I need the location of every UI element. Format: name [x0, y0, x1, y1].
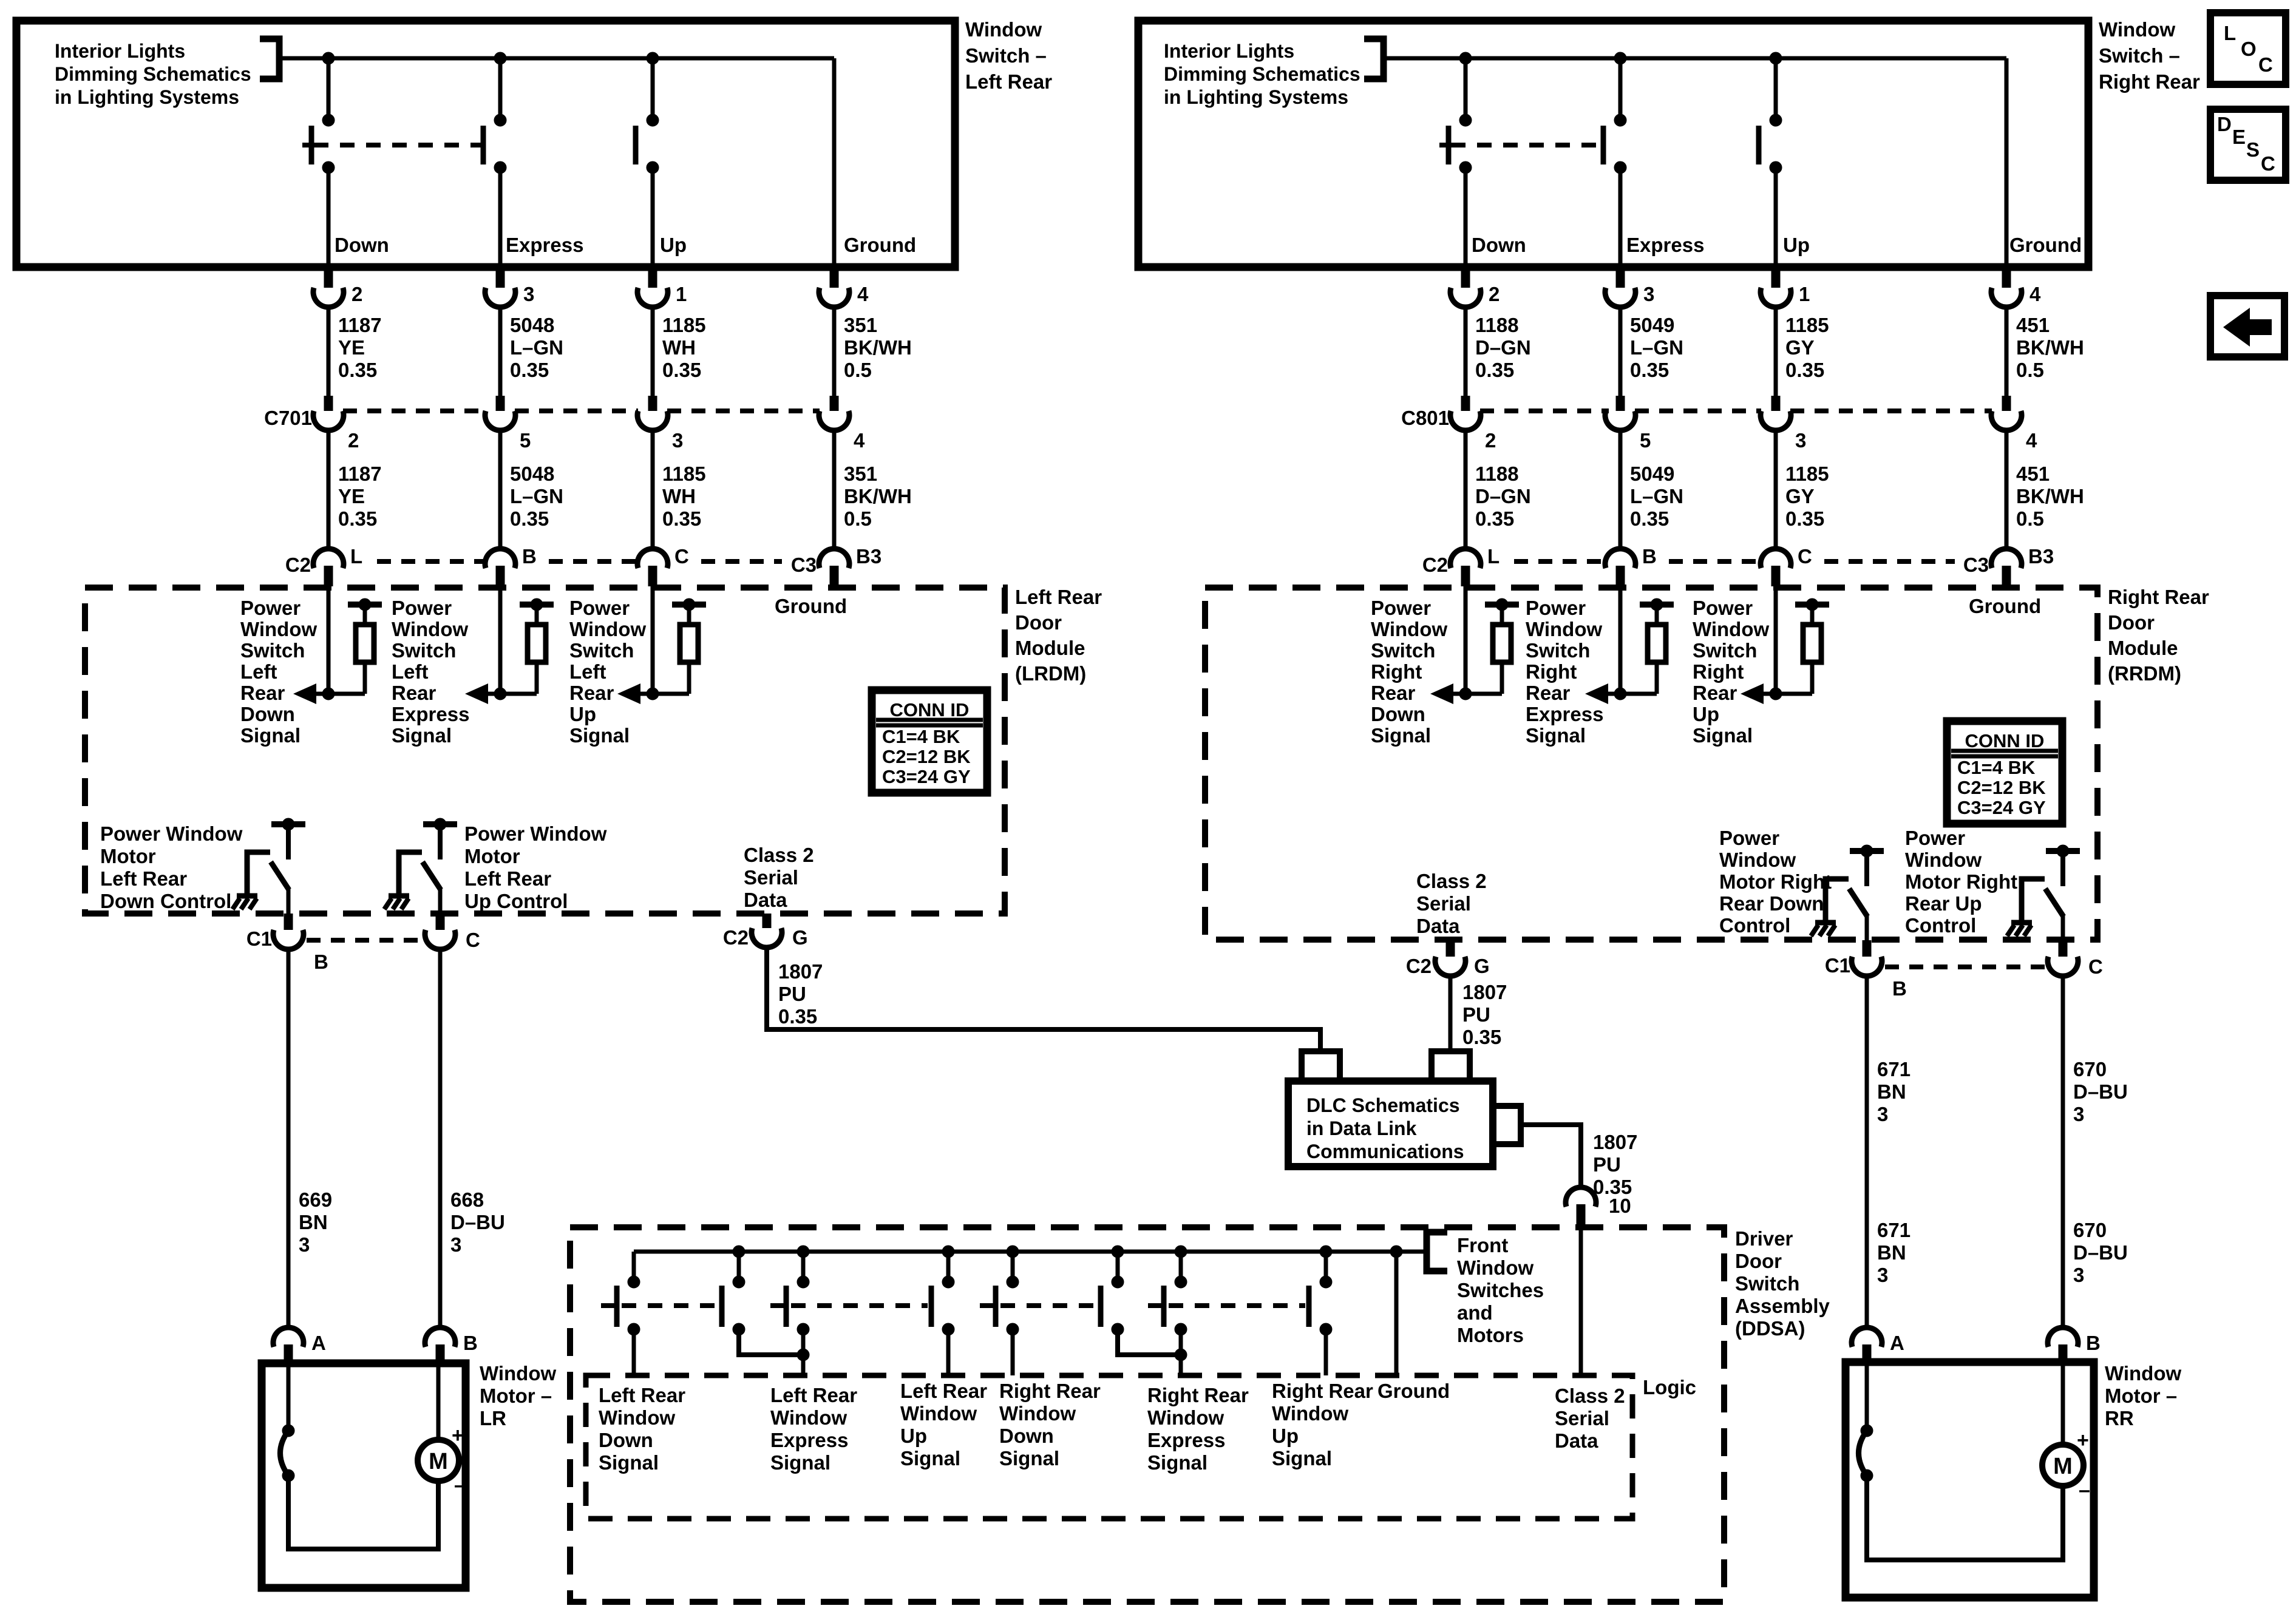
wire: RR Express signal drop (DDSA): [1179, 1329, 1183, 1375]
svg-text:Signal: Signal: [770, 1451, 830, 1474]
switch S-Express-LR top contact: [494, 114, 506, 126]
svg-text:O: O: [2241, 38, 2257, 60]
svg-text:Module: Module: [1015, 637, 1085, 659]
svg-text:451: 451: [2016, 314, 2050, 336]
svg-text:Ground: Ground: [1969, 595, 2041, 617]
connector C801 cavity 2: [1461, 396, 1470, 411]
svg-text:Right Rear: Right Rear: [2099, 70, 2200, 93]
svg-text:1807: 1807: [778, 960, 823, 983]
svg-text:PU: PU: [778, 983, 806, 1005]
wire: circuit 1187|YE|0.35 upper segment (left): [327, 307, 331, 396]
node: rail junction Up (left box): [647, 52, 659, 64]
svg-text:0.35: 0.35: [1630, 507, 1669, 530]
front switch Right Rear Window Down: contacts: [942, 1276, 954, 1288]
svg-text:Window: Window: [1905, 849, 1982, 871]
svg-text:BN: BN: [299, 1211, 328, 1233]
logic block dashed outline (DDSA): [586, 1375, 1632, 1519]
svg-text:C801: C801: [1401, 407, 1449, 429]
CONN ID table (LRDM): [872, 690, 987, 793]
connector C801 cavity 3: [1771, 396, 1781, 411]
svg-text:BK/WH: BK/WH: [844, 336, 912, 359]
wire: supply rail from bracket, right switch box: [1384, 56, 2006, 61]
svg-text:BK/WH: BK/WH: [844, 485, 912, 507]
svg-text:+: +: [452, 1424, 464, 1447]
wire: RR Up signal drop (DDSA): [1324, 1329, 1328, 1375]
wire: Express switch feed (right box): [1618, 58, 1623, 121]
switch assembly box: Window Switch - Right Rear: [1138, 21, 2088, 267]
svg-text:4: 4: [2026, 429, 2037, 452]
svg-text:1185: 1185: [1785, 463, 1829, 485]
svg-text:0.35: 0.35: [510, 359, 549, 381]
arrow into logic for Up signal: [617, 683, 640, 704]
internal pull-up resistor for Up signal: [1795, 602, 1829, 608]
svg-text:Front: Front: [1457, 1234, 1508, 1256]
wire: Express switch output (left box): [498, 168, 503, 267]
wire: circuit 351|BK upper segment (left): [832, 307, 837, 396]
svg-text:1: 1: [676, 283, 687, 305]
svg-text:3: 3: [450, 1233, 461, 1256]
driver switch arm to ground: [2022, 879, 2045, 923]
internal supply T-bar: [423, 821, 457, 827]
svg-text:5: 5: [1640, 429, 1651, 452]
svg-text:3: 3: [2073, 1103, 2084, 1125]
svg-text:351: 351: [844, 314, 877, 336]
wire: control output: [438, 889, 443, 914]
wire: circuit 5049|L&#8211;GN|0.35 lower segment (right): [1618, 430, 1623, 549]
connector cavity 10 into DDSA: [1566, 1187, 1596, 1207]
front switch Right Rear Window Express pre: movable bar: [993, 1286, 999, 1327]
svg-text:LR: LR: [480, 1407, 506, 1429]
svg-text:0.35: 0.35: [1785, 507, 1824, 530]
svg-text:B: B: [522, 545, 537, 568]
wire: circuit 1188|D&#8211;GN|0.35 upper segment (right): [1464, 307, 1468, 396]
wire: class 2 serial data drop (DDSA): [1579, 1227, 1583, 1375]
svg-text:A: A: [1890, 1332, 1904, 1354]
wire: circuit 1807 PU 0.35 from RRDM: [1449, 975, 1453, 1051]
wire: motor RR internal loop: [1867, 1476, 2063, 1560]
svg-text:GY: GY: [1785, 485, 1815, 507]
svg-text:Right: Right: [1526, 660, 1577, 683]
DESC reference box: [2210, 109, 2286, 180]
svg-text:Power: Power: [1526, 597, 1586, 619]
svg-text:D–BU: D–BU: [450, 1211, 505, 1233]
svg-text:Left Rear: Left Rear: [1015, 586, 1102, 608]
arrow into logic for Down signal: [1430, 683, 1453, 704]
front switch Right Rear Window Up feed: contacts: [1175, 1276, 1187, 1288]
connector C701 dashed gang line: [343, 408, 486, 413]
svg-text:C2=12 BK: C2=12 BK: [1957, 777, 2046, 798]
svg-text:670: 670: [2073, 1219, 2107, 1241]
svg-text:Class 2: Class 2: [1555, 1385, 1625, 1407]
front switch Right Rear Window Express pre: contacts: [1007, 1276, 1019, 1288]
svg-text:5: 5: [520, 429, 531, 452]
svg-text:GY: GY: [1785, 336, 1815, 359]
internal supply T-bar: [2046, 848, 2080, 854]
front switch Left Rear Window Express: contacts: [733, 1276, 745, 1288]
svg-text:1188: 1188: [1475, 463, 1519, 485]
svg-text:D: D: [2217, 113, 2232, 135]
svg-text:Door: Door: [2108, 611, 2155, 634]
svg-text:3: 3: [1877, 1264, 1888, 1286]
svg-text:0.35: 0.35: [1462, 1026, 1501, 1048]
connector C1 terminal B (RRDM): [1863, 940, 1872, 957]
connector pin 2 of Window Switch Right Rear: [1461, 267, 1470, 288]
switch S-Up-RR top contact: [1770, 114, 1782, 126]
svg-text:Down: Down: [335, 234, 389, 256]
svg-text:Data: Data: [1416, 915, 1460, 937]
svg-text:+: +: [2077, 1429, 2089, 1452]
wire: Up switch feed (left box): [651, 58, 655, 121]
module box: Right Rear Door Module (RRDM) dashed outline: [1205, 588, 2097, 940]
svg-text:Rear: Rear: [240, 682, 285, 704]
arrow into logic for Down signal: [293, 683, 316, 704]
motor M (LR): [418, 1440, 459, 1481]
svg-text:Interior Lights: Interior Lights: [55, 40, 185, 62]
svg-text:YE: YE: [338, 485, 365, 507]
svg-text:and: and: [1457, 1301, 1493, 1324]
svg-text:Window: Window: [240, 618, 317, 640]
svg-text:0.35: 0.35: [510, 507, 549, 530]
svg-text:Switch: Switch: [1735, 1272, 1799, 1295]
svg-text:C1: C1: [246, 927, 272, 950]
wire: motor LR brush feed B: [436, 1363, 441, 1440]
switch S-Express-RR movable bar: [1601, 126, 1606, 164]
wire: front switch common bus (DDSA): [634, 1250, 1427, 1254]
connector C701 cavity 2: [324, 396, 333, 411]
svg-text:0.35: 0.35: [1785, 359, 1824, 381]
svg-text:S: S: [2246, 138, 2260, 161]
svg-text:0.5: 0.5: [844, 507, 872, 530]
svg-text:Left: Left: [569, 660, 606, 683]
svg-text:Left Rear: Left Rear: [100, 867, 187, 890]
svg-text:1187: 1187: [338, 463, 382, 485]
DLC box exit notch right side: [1493, 1106, 1521, 1144]
svg-text:D–BU: D–BU: [2073, 1241, 2128, 1264]
svg-text:Signal: Signal: [1272, 1447, 1332, 1470]
svg-text:Down: Down: [240, 703, 295, 725]
wire: circuit 669 BN 3: [287, 949, 291, 1329]
svg-text:Up: Up: [900, 1425, 927, 1447]
front switch Left Rear Window Down: contacts: [628, 1276, 640, 1288]
driver switch arm to ground: [1826, 879, 1849, 923]
connector terminal B of Window Motor LR: [425, 1327, 455, 1347]
wire: control output: [2061, 915, 2065, 940]
svg-text:Interior Lights: Interior Lights: [1164, 40, 1294, 62]
svg-text:0.35: 0.35: [778, 1005, 817, 1028]
svg-text:Power: Power: [569, 597, 630, 619]
svg-text:Power Window: Power Window: [464, 822, 607, 845]
mechanical link stub (front switches): [980, 1303, 996, 1308]
ground symbol: [2011, 920, 2032, 926]
wire: circuit 5049|L&#8211;GN|0.35 upper segment (right): [1618, 307, 1623, 396]
svg-text:Door: Door: [1015, 611, 1062, 634]
node: rail junction Down (right box): [1459, 52, 1472, 64]
connector pin 3 of Window Switch Right Rear: [1616, 267, 1625, 288]
mechanical link stub on Down bar (left box): [302, 143, 319, 147]
connector pin 3 of Window Switch Left Rear: [496, 267, 505, 288]
svg-text:Left Rear: Left Rear: [900, 1380, 987, 1402]
switch S-Up-LR top contact: [647, 114, 659, 126]
svg-text:WH: WH: [662, 336, 696, 359]
switch S-Down-LR bottom contact: [322, 161, 335, 174]
svg-text:Switch –: Switch –: [2099, 44, 2180, 67]
svg-text:670: 670: [2073, 1058, 2107, 1080]
svg-text:Switch –: Switch –: [965, 44, 1047, 67]
connector C1 terminal C (LRDM): [436, 914, 445, 930]
svg-text:Power: Power: [1905, 827, 1965, 849]
svg-text:C2: C2: [1422, 554, 1448, 576]
svg-text:D–BU: D–BU: [2073, 1080, 2128, 1103]
svg-text:Ground: Ground: [775, 595, 847, 617]
svg-text:5049: 5049: [1630, 463, 1674, 485]
svg-text:G: G: [1474, 955, 1490, 977]
switch assembly box: Window Switch - Left Rear: [16, 21, 955, 267]
front switch Right Rear Window Express: contacts: [1112, 1276, 1124, 1288]
svg-text:Up: Up: [1693, 703, 1719, 725]
connector pin 4 of Window Switch Left Rear: [830, 267, 839, 288]
wire: Down switch feed (left box): [327, 58, 331, 121]
svg-text:E: E: [2232, 126, 2246, 148]
svg-text:Down: Down: [999, 1425, 1054, 1447]
connector terminal B3 into LRDM: [832, 549, 837, 551]
svg-text:Serial: Serial: [1555, 1407, 1609, 1429]
wire: Express switch output (right box): [1618, 168, 1623, 267]
svg-text:C: C: [674, 545, 689, 568]
connector terminal B3 into RRDM: [2005, 549, 2009, 551]
switch S-Down-LR movable bar: [309, 126, 314, 164]
svg-text:Power: Power: [1371, 597, 1431, 619]
component box: DLC Schematics in Data Link Communications: [1288, 1081, 1493, 1167]
switch S-Up-RR movable bar: [1756, 126, 1762, 164]
svg-text:2: 2: [352, 283, 362, 305]
svg-text:0.5: 0.5: [844, 359, 872, 381]
svg-text:Window: Window: [770, 1406, 847, 1429]
wire: LR Express jog (DDSA): [739, 1329, 803, 1355]
svg-text:WH: WH: [662, 485, 696, 507]
wire: circuit 1807 PU 0.35 from DLC to DDSA: [1521, 1125, 1581, 1188]
arrow into logic for Express signal: [1585, 683, 1608, 704]
connector pin 4 of Window Switch Right Rear: [2002, 267, 2011, 288]
CONN ID table (RRDM): [1947, 721, 2062, 824]
commutator contact (LR motor): [282, 1425, 294, 1437]
front switch Left Rear Window Down: feed: [632, 1252, 636, 1282]
front switch Right Rear Window Up feed: feed: [1175, 1246, 1187, 1258]
svg-text:Down: Down: [599, 1429, 653, 1451]
svg-text:Motor Right: Motor Right: [1719, 870, 1832, 893]
wire: ground drop at right of right box: [2005, 58, 2009, 267]
svg-text:0.35: 0.35: [338, 359, 377, 381]
front switch Left Rear Window Down: movable bar: [614, 1286, 620, 1327]
switch S-Down-RR bottom contact: [1459, 161, 1472, 174]
svg-text:1: 1: [1799, 283, 1810, 305]
wire: signal node Down: [1435, 692, 1502, 696]
svg-text:BK/WH: BK/WH: [2016, 336, 2084, 359]
off-page bracket to Interior Lights Dimming (right): [1364, 39, 1384, 79]
svg-text:C701: C701: [264, 407, 312, 429]
svg-text:Motor: Motor: [464, 845, 520, 867]
svg-text:Up: Up: [660, 234, 687, 256]
svg-text:Window: Window: [1526, 618, 1602, 640]
svg-text:Left Rear: Left Rear: [965, 70, 1052, 93]
svg-text:C3: C3: [791, 554, 817, 576]
wire: signal node Express: [1590, 692, 1657, 696]
svg-text:Dimming Schematics: Dimming Schematics: [1164, 63, 1360, 85]
svg-text:C2=12 BK: C2=12 BK: [882, 746, 971, 767]
svg-text:3: 3: [2073, 1264, 2084, 1286]
svg-text:Signal: Signal: [569, 724, 630, 747]
svg-text:Window: Window: [1457, 1256, 1533, 1279]
svg-text:Switches: Switches: [1457, 1279, 1544, 1301]
svg-text:L: L: [350, 545, 362, 568]
svg-text:Ground: Ground: [844, 234, 916, 256]
svg-text:0.35: 0.35: [662, 507, 701, 530]
svg-text:C3: C3: [1963, 554, 1989, 576]
svg-text:YE: YE: [338, 336, 365, 359]
wire: signal node Up: [1745, 692, 1812, 696]
svg-text:Express: Express: [392, 703, 469, 725]
svg-text:0.5: 0.5: [2016, 507, 2044, 530]
svg-text:C: C: [1798, 545, 1812, 568]
svg-text:C: C: [466, 929, 480, 951]
svg-text:5048: 5048: [510, 314, 554, 336]
connector terminal A of Window Motor RR: [1852, 1327, 1882, 1347]
svg-text:Motor Right: Motor Right: [1905, 870, 2017, 893]
connector C1 terminal C (RRDM): [2059, 940, 2068, 957]
wire: circuit 1185|GY|0.35 upper segment (right): [1774, 307, 1778, 396]
svg-text:5049: 5049: [1630, 314, 1674, 336]
left arrow icon: [2223, 308, 2272, 347]
svg-text:Logic: Logic: [1643, 1376, 1696, 1398]
wire: Up switch feed (right box): [1774, 58, 1778, 121]
mechanical link dashed (front switches): [791, 1303, 928, 1308]
svg-text:M: M: [2053, 1454, 2073, 1479]
svg-text:671: 671: [1877, 1058, 1911, 1080]
internal pull-up resistor for Express signal: [1640, 602, 1674, 608]
svg-text:Signal: Signal: [392, 724, 452, 747]
front switch Right Rear Window Express: movable bar: [1098, 1286, 1104, 1327]
wire: Down switch feed (right box): [1464, 58, 1468, 121]
svg-text:Rear: Rear: [392, 682, 436, 704]
svg-text:1185: 1185: [1785, 314, 1829, 336]
svg-text:Dimming Schematics: Dimming Schematics: [55, 63, 251, 85]
connector terminal B into RRDM: [1618, 549, 1623, 551]
svg-text:1185: 1185: [662, 463, 706, 485]
svg-text:Right Rear: Right Rear: [1147, 1384, 1249, 1406]
svg-text:10: 10: [1609, 1195, 1631, 1217]
switch S-Up-LR bottom contact: [647, 161, 659, 174]
svg-text:Left Rear: Left Rear: [770, 1384, 857, 1406]
DLC box entry notch right: [1432, 1051, 1470, 1081]
svg-text:0.35: 0.35: [338, 507, 377, 530]
front switch Right Rear Window Express: feed: [1112, 1246, 1124, 1258]
internal pull-up resistor for Up signal: [672, 602, 706, 608]
wire: ground drop (DDSA): [1390, 1246, 1402, 1258]
wire: Power Window Switch Right Rear Down Signal input: [1464, 586, 1468, 694]
wire: circuit 1185|WH|0.35 lower segment (left): [651, 430, 655, 549]
switch S-Down-RR movable bar: [1446, 126, 1452, 164]
connector C701 cavity 3: [648, 396, 657, 411]
svg-text:C3=24 GY: C3=24 GY: [882, 766, 971, 787]
svg-text:(RRDM): (RRDM): [2108, 662, 2181, 685]
svg-text:Signal: Signal: [900, 1447, 960, 1470]
wire: Power Window Switch Left Rear Express Signal input: [498, 586, 503, 694]
svg-text:Signal: Signal: [240, 724, 301, 747]
svg-text:1187: 1187: [338, 314, 382, 336]
svg-text:C: C: [2261, 152, 2275, 175]
LOC reference box: [2210, 13, 2286, 84]
svg-text:B3: B3: [2028, 545, 2054, 568]
wire: circuit 1187|YE|0.35 lower segment (left): [327, 430, 331, 549]
internal supply T-bar: [1850, 848, 1884, 854]
connector terminal C into RRDM: [1774, 549, 1778, 551]
wire: circuit 1185|GY|0.35 lower segment (right): [1774, 430, 1778, 549]
connector C701 cavity 5: [496, 396, 505, 411]
svg-text:0.35: 0.35: [1475, 507, 1514, 530]
svg-text:0.35: 0.35: [662, 359, 701, 381]
driver switch arm to ground: [399, 852, 422, 896]
wire: Down switch output (right box): [1464, 168, 1468, 267]
wire: circuit 5048|L&#8211;GN|0.35 lower segment (left): [498, 430, 503, 549]
mechanical link stub (front switches): [1148, 1303, 1164, 1308]
svg-text:1807: 1807: [1462, 981, 1507, 1003]
svg-text:671: 671: [1877, 1219, 1911, 1241]
svg-text:Communications: Communications: [1306, 1141, 1464, 1162]
wire: Up switch output (right box): [1774, 168, 1778, 267]
svg-text:in Lighting Systems: in Lighting Systems: [1164, 86, 1348, 108]
svg-text:Switch: Switch: [1371, 639, 1435, 662]
module box: Driver Door Switch Assembly (DDSA) dashed outline: [570, 1227, 1724, 1602]
svg-text:5048: 5048: [510, 463, 554, 485]
svg-text:Ground: Ground: [1377, 1380, 1450, 1402]
svg-text:Rear Down: Rear Down: [1719, 892, 1824, 915]
svg-text:Switch: Switch: [240, 639, 305, 662]
svg-text:C1=4 BK: C1=4 BK: [1957, 757, 2036, 778]
svg-text:Down Control: Down Control: [100, 890, 231, 912]
svg-text:L–GN: L–GN: [510, 485, 563, 507]
front switch Right Rear Window Up feed: movable bar: [1161, 1286, 1167, 1327]
svg-text:Motor –: Motor –: [2105, 1385, 2177, 1407]
internal pull-up resistor for Down signal: [1485, 602, 1519, 608]
svg-text:Power: Power: [240, 597, 301, 619]
svg-text:PU: PU: [1593, 1153, 1621, 1176]
svg-text:Ground: Ground: [2009, 234, 2082, 256]
svg-text:4: 4: [857, 283, 869, 305]
mechanical link stub on Down bar (right box): [1439, 143, 1456, 147]
internal pull-up resistor for Down signal: [348, 602, 382, 608]
wire: control output: [1865, 915, 1869, 940]
wire: RR Down signal drop (DDSA): [1011, 1329, 1015, 1375]
switch S-Express-RR bottom contact: [1614, 161, 1626, 174]
svg-text:0.35: 0.35: [1475, 359, 1514, 381]
svg-text:C2: C2: [285, 554, 311, 576]
wire: circuit 1185|WH|0.35 upper segment (left): [651, 307, 655, 396]
svg-text:B: B: [463, 1332, 478, 1354]
svg-text:Power: Power: [392, 597, 452, 619]
dashed gang line C1 row (RRDM): [1885, 964, 2046, 969]
wire: circuit 451|BK lower segment (right): [2005, 430, 2009, 549]
svg-text:Switch: Switch: [569, 639, 634, 662]
node: rail junction Express (left box): [494, 52, 506, 64]
svg-text:2: 2: [1489, 283, 1500, 305]
dashed gang line C1 row (LRDM): [307, 938, 423, 943]
wire: Power Window Switch Left Rear Up Signal input: [651, 586, 655, 694]
front switch Right Rear Window Down: movable bar: [929, 1286, 934, 1327]
node: rail junction Down (left box): [322, 52, 335, 64]
back-arrow reference box: [2210, 296, 2284, 357]
node: rail junction Express (right box): [1614, 52, 1626, 64]
svg-text:RR: RR: [2105, 1407, 2134, 1429]
switch S-Up-RR bottom contact: [1770, 161, 1782, 174]
